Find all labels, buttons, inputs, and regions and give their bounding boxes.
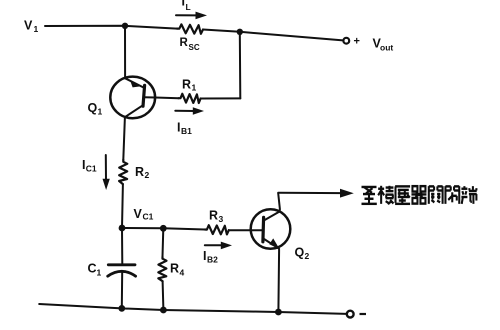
svg-text:I: I (203, 249, 206, 263)
label IB2 (203, 249, 218, 265)
svg-text:L: L (186, 2, 191, 12)
node VC1 junction dot (119, 225, 126, 232)
resistor R3 (205, 225, 229, 234)
svg-text:R: R (209, 209, 218, 223)
wire C1 branch from VC1 (121, 228, 123, 265)
svg-text:1: 1 (192, 83, 197, 93)
svg-text:C1: C1 (143, 212, 154, 222)
svg-text:4: 4 (180, 268, 185, 278)
node A junction dot (122, 23, 128, 29)
svg-text:2: 2 (305, 251, 310, 261)
wire node D to R3 (163, 228, 205, 229)
label R2 (135, 165, 150, 180)
label RSC (180, 37, 200, 52)
svg-text:V: V (134, 207, 143, 221)
wire Q1 collector down to R2 (123, 117, 125, 160)
char 器 (411, 186, 426, 203)
node D junction dot (160, 225, 167, 232)
resistor R1 (179, 94, 201, 103)
char 閉 (445, 186, 459, 204)
terminal minus (347, 311, 354, 318)
wire Q2 collector riser (278, 193, 280, 211)
svg-text:R: R (170, 262, 179, 276)
wire Q2 emitter down to bottom rail (277, 250, 280, 313)
node C1-gnd junction dot (118, 305, 125, 312)
svg-text:Q: Q (88, 101, 98, 115)
transistor Q1 (110, 77, 155, 119)
label IB1 (177, 121, 192, 137)
transistor Q2 (251, 209, 291, 249)
wire C1 to bottom rail (121, 272, 123, 309)
label C1 (88, 262, 102, 278)
node Q2-gnd junction dot (275, 309, 282, 316)
label Q1 (88, 101, 103, 117)
wire node D down to R4 (162, 228, 165, 256)
wire Q1 base to R1 (155, 97, 178, 100)
label V1 (24, 19, 39, 34)
char 端 (461, 186, 476, 204)
wire riser up to node B (239, 32, 242, 99)
arrow IB2 (205, 242, 232, 250)
arrow IL (176, 12, 207, 20)
label R4 (170, 262, 185, 278)
char 至 (362, 187, 377, 204)
label Chinese: 至穩壓器關閉端 (362, 186, 477, 204)
svg-text:R: R (180, 37, 189, 49)
label VC1 (134, 207, 154, 222)
node B junction dot (237, 29, 243, 35)
label R3 (209, 209, 224, 225)
svg-text:C1: C1 (86, 164, 97, 174)
svg-text:I: I (177, 121, 180, 135)
wire R1 to right riser (201, 97, 241, 99)
svg-text:B1: B1 (181, 126, 192, 136)
char 壓 (395, 186, 410, 203)
svg-text:R: R (182, 78, 191, 92)
svg-text:1: 1 (98, 107, 103, 117)
svg-text:+: + (354, 36, 360, 48)
svg-text:out: out (380, 43, 393, 53)
char 穩 (378, 186, 393, 204)
arrow to shutdown terminal (278, 189, 354, 198)
label +Vout (354, 36, 394, 53)
node R4-gnd junction dot (160, 307, 167, 314)
svg-text:SC: SC (189, 43, 200, 52)
wire top rail V1 to RSC (45, 26, 177, 29)
wire bottom rail (39, 304, 346, 314)
wire node B to +Vout terminal (240, 32, 343, 41)
resistor R4 (158, 257, 166, 282)
svg-text:B2: B2 (207, 255, 218, 265)
svg-text:2: 2 (145, 170, 150, 180)
wire RSC to node B (203, 30, 240, 32)
arrow IB1 (175, 107, 204, 115)
svg-text:I: I (182, 0, 185, 9)
label R1 (182, 78, 197, 93)
svg-text:3: 3 (219, 214, 224, 224)
resistor R2 (119, 160, 127, 184)
wire R4 to bottom rail (162, 281, 165, 310)
svg-text:1: 1 (97, 268, 102, 278)
arrow IC1 (103, 155, 110, 190)
wire R3 to Q2 base (229, 229, 263, 231)
svg-text:Q: Q (295, 246, 305, 260)
char 關 (429, 186, 443, 204)
svg-text:R: R (135, 165, 144, 179)
svg-text:1: 1 (34, 24, 39, 34)
terminal +Vout (343, 38, 349, 44)
resistor RSC (177, 24, 203, 33)
label minus (360, 313, 367, 315)
label IC1 (82, 158, 97, 174)
capacitor C1 (108, 265, 136, 276)
wire VC1 to node D (122, 227, 163, 229)
label IL (182, 0, 191, 12)
wire node A down to Q1 emitter (124, 26, 126, 77)
label Q2 (295, 246, 310, 261)
svg-text:C: C (88, 262, 97, 276)
svg-text:V: V (24, 19, 33, 33)
wire R2 to node VC1 (121, 184, 124, 228)
